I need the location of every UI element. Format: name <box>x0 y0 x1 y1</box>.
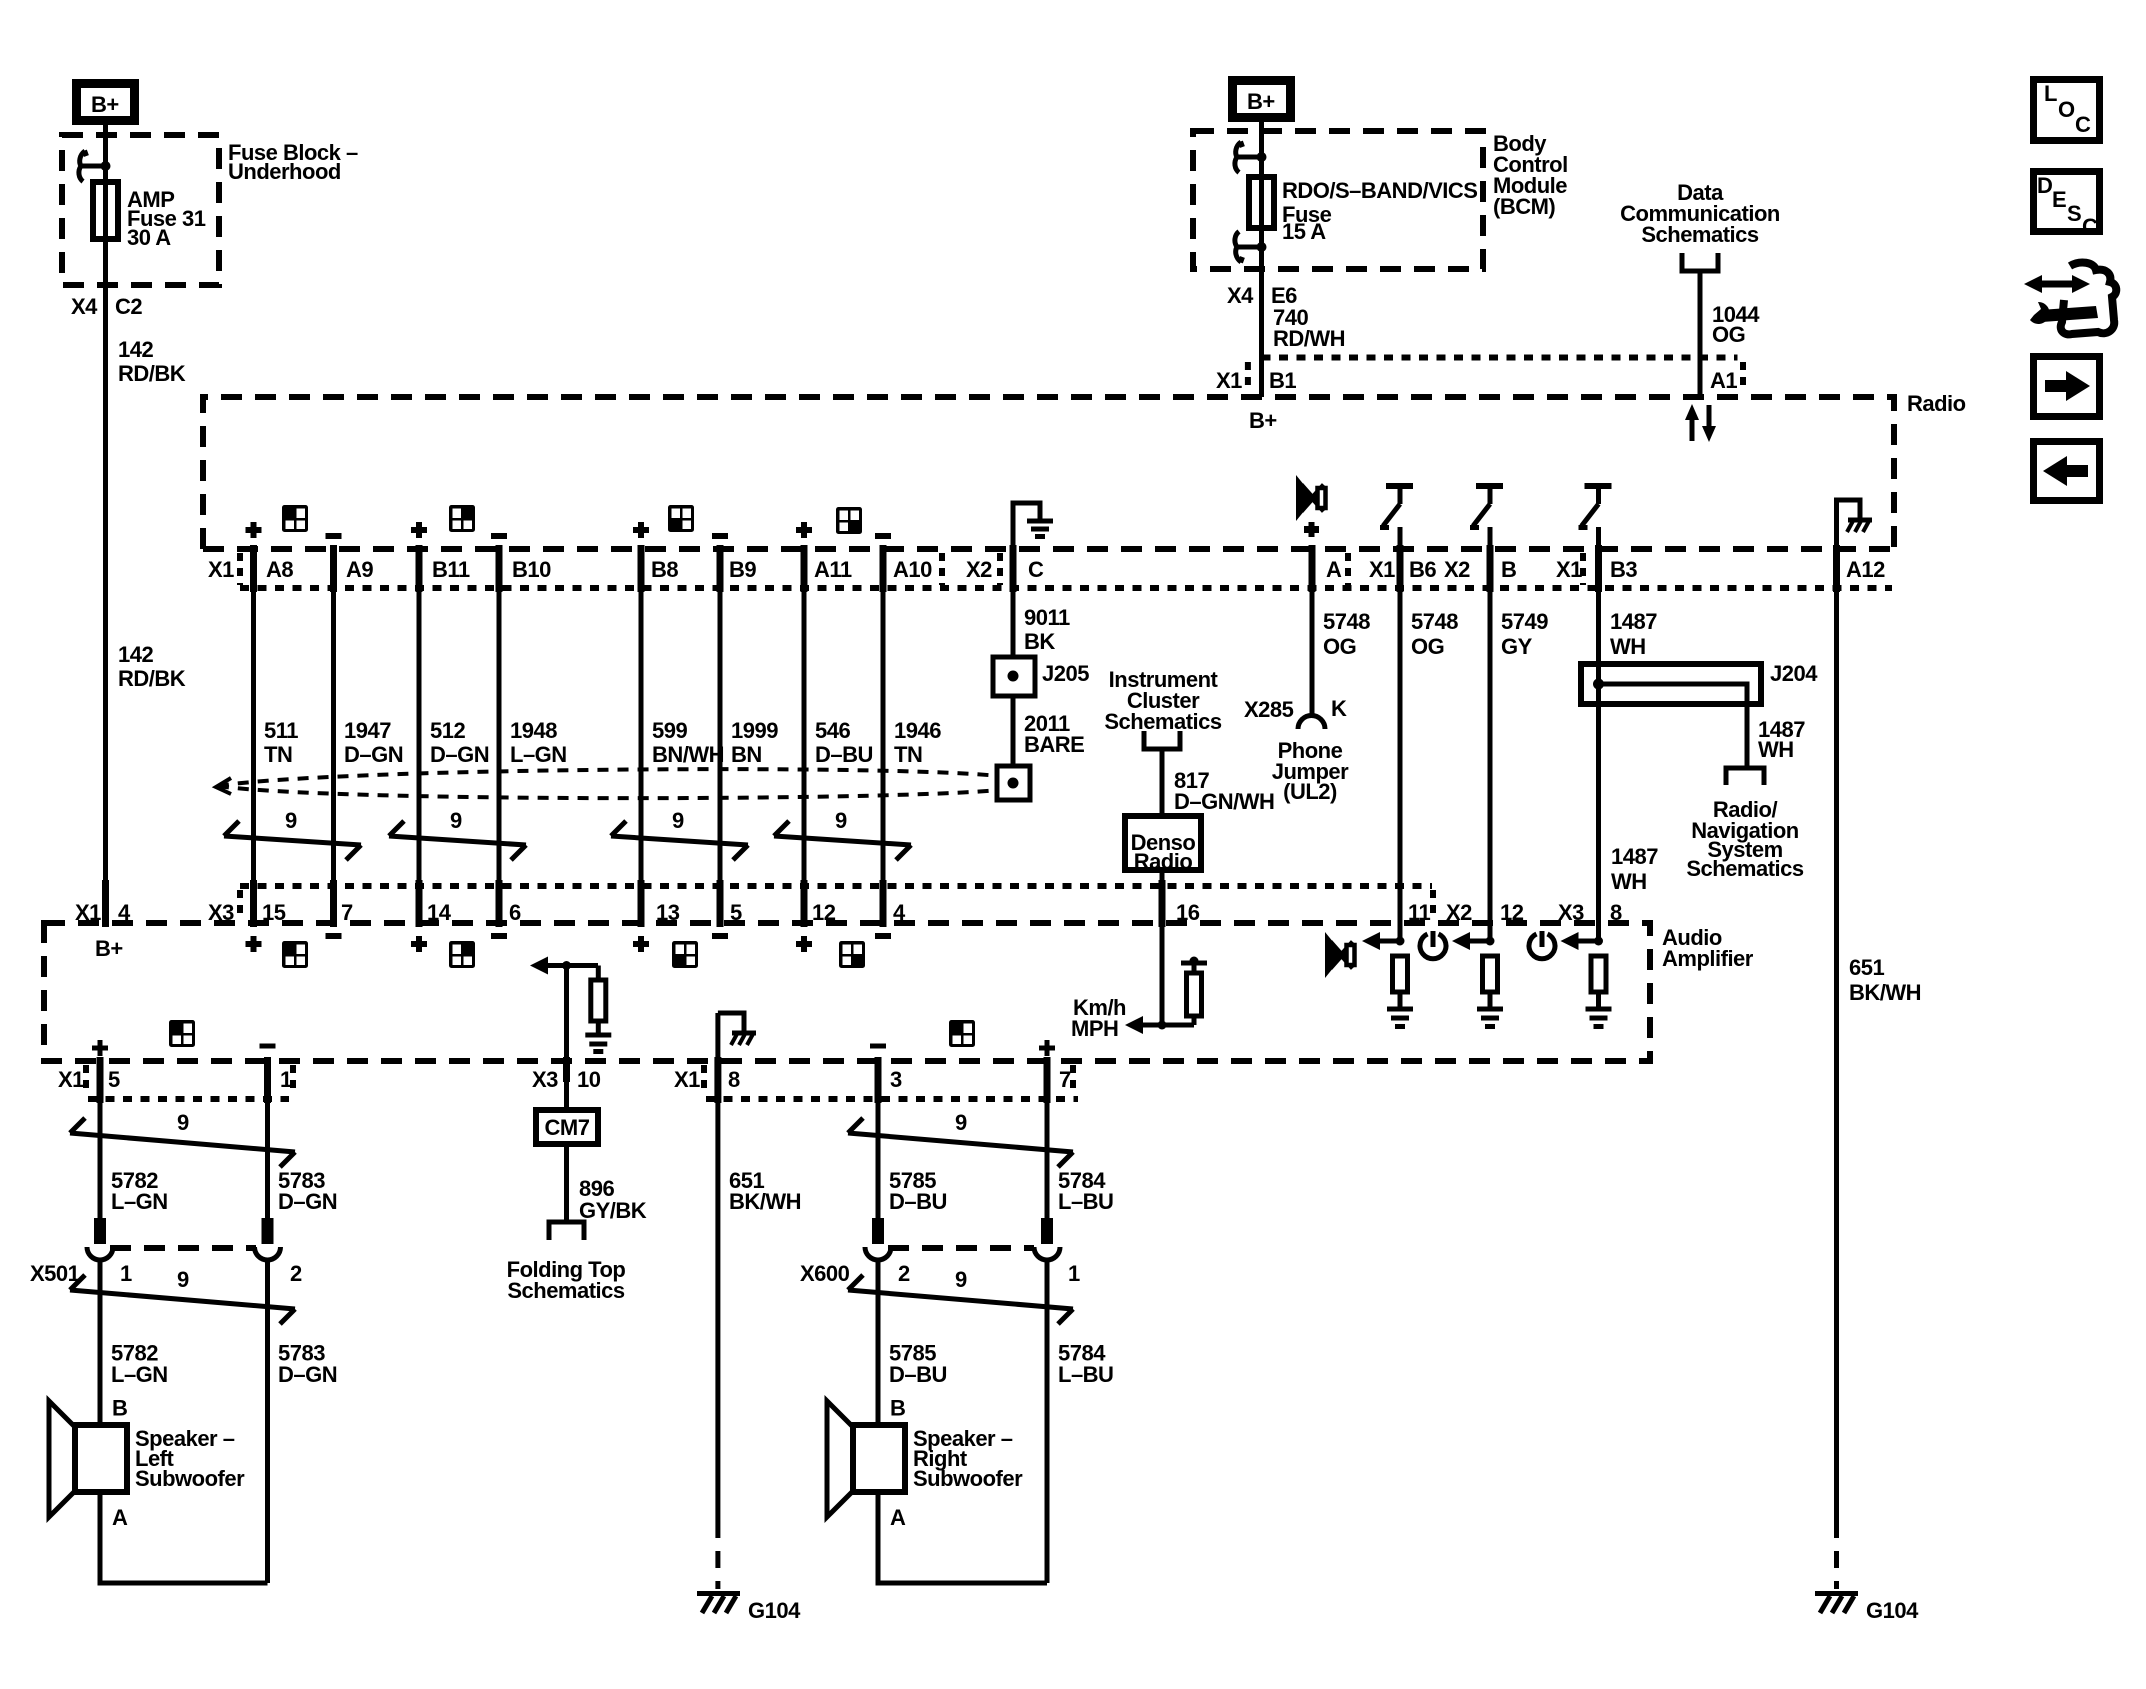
repair/wrench legend icon <box>2024 263 2116 335</box>
svg-text:B+: B+ <box>91 92 119 117</box>
Folding Top Schematics off-page reference <box>507 1222 626 1303</box>
power symbol (X3) <box>1529 931 1555 959</box>
ground G104 (left) <box>697 1594 801 1624</box>
splice J204 <box>1581 661 1818 768</box>
gauge slash 9 (right pair upper) <box>848 1110 1073 1167</box>
terminal hook above B6 <box>1380 486 1413 528</box>
svg-text:Underhood: Underhood <box>228 159 341 184</box>
wire 16 to amplifier <box>1160 870 1165 923</box>
speaker position icon LF (amp 15) <box>282 941 308 968</box>
Speaker - Right Subwoofer <box>827 1396 1023 1531</box>
svg-text:L–BU: L–BU <box>1058 1189 1113 1214</box>
bent-pin terminal above fuse <box>1235 142 1267 173</box>
svg-text:K: K <box>1331 696 1347 721</box>
bent-pin terminal below fuse <box>1235 232 1267 263</box>
svg-text:X1: X1 <box>1369 557 1395 582</box>
svg-text:D–GN: D–GN <box>430 742 489 767</box>
LOC legend box <box>2034 80 2100 141</box>
svg-text:2: 2 <box>898 1261 910 1286</box>
svg-text:B+: B+ <box>1249 408 1277 433</box>
svg-text:X1: X1 <box>208 557 234 582</box>
svg-text:599: 599 <box>652 718 687 743</box>
back arrow legend box <box>2034 442 2100 501</box>
in-line connector X600 <box>800 1218 1080 1286</box>
svg-text:5748: 5748 <box>1323 609 1370 634</box>
resistor to ground (pin 12) <box>1477 956 1503 1027</box>
svg-text:WH: WH <box>1610 634 1646 659</box>
svg-text:(UL2): (UL2) <box>1283 779 1337 804</box>
svg-text:BK/WH: BK/WH <box>1849 980 1921 1005</box>
svg-text:D–BU: D–BU <box>889 1362 947 1387</box>
Speaker - Left Subwoofer <box>49 1396 245 1531</box>
speaker wires radio to amplifier <box>254 549 884 923</box>
svg-text:Schematics: Schematics <box>507 1278 625 1303</box>
CM7 speed output junction <box>530 957 611 1052</box>
svg-text:1: 1 <box>120 1261 132 1286</box>
speaker output polarity marks (radio) <box>246 522 892 538</box>
svg-text:B1: B1 <box>1269 368 1296 393</box>
svg-text:J204: J204 <box>1770 661 1818 686</box>
svg-text:X4: X4 <box>71 294 98 319</box>
bent-pin terminal at fuse input <box>79 151 111 182</box>
svg-text:A1: A1 <box>1710 368 1737 393</box>
right subwoofer output pins <box>878 1057 1047 1103</box>
svg-text:X1: X1 <box>674 1067 700 1092</box>
svg-text:OG: OG <box>1411 634 1444 659</box>
svg-text:D–GN: D–GN <box>278 1362 337 1387</box>
separator <box>1245 362 1251 392</box>
svg-text:CM7: CM7 <box>545 1115 590 1140</box>
Instrument Cluster Schematics off-page reference <box>1104 667 1222 749</box>
wire 142 RD/BK from B+ through fuse to amplifier <box>103 125 108 923</box>
wire 651 BK/WH (A12) <box>1834 549 1839 1521</box>
svg-text:J205: J205 <box>1042 661 1089 686</box>
svg-text:9: 9 <box>177 1110 189 1135</box>
gauge slash 9 (B8/B9 pair) <box>611 808 748 860</box>
svg-text:A8: A8 <box>266 557 293 582</box>
Radio/Navigation System Schematics off-page reference <box>1686 768 1804 881</box>
svg-text:(BCM): (BCM) <box>1493 194 1555 219</box>
svg-text:C: C <box>2075 112 2091 137</box>
svg-text:A9: A9 <box>346 557 373 582</box>
gauge slash 9 (B11/B10 pair) <box>389 808 526 860</box>
wire 5748 OG (B6) to amp pin 11 <box>1398 527 1403 941</box>
svg-text:WH: WH <box>1611 869 1647 894</box>
CM7 wire through amp <box>564 966 569 1111</box>
speaker position icon RR (amp 12) <box>839 941 865 968</box>
svg-text:2: 2 <box>290 1261 302 1286</box>
svg-text:651: 651 <box>1849 955 1884 980</box>
wire 1487 WH (B3) to amp pin 8 <box>1596 527 1601 941</box>
svg-text:5749: 5749 <box>1501 609 1548 634</box>
left speaker return wire <box>100 1492 268 1583</box>
pin stubs through radio connector <box>254 545 1837 592</box>
svg-text:X1: X1 <box>1556 557 1582 582</box>
polarity marks left output <box>92 1040 276 1056</box>
fuse AMP Fuse 31 30 A <box>93 182 118 239</box>
svg-text:1487: 1487 <box>1610 609 1657 634</box>
svg-text:511: 511 <box>264 718 298 743</box>
svg-text:OG: OG <box>1323 634 1356 659</box>
muted speaker icon (radio pin A) <box>1296 475 1326 537</box>
wire 5785 D-BU lower <box>876 1260 881 1425</box>
gauge slash 9 (A11/A10 pair) <box>774 808 911 860</box>
svg-text:9: 9 <box>835 808 847 833</box>
wire 651 BK/WH to left G104 <box>715 1013 720 1521</box>
svg-text:9: 9 <box>177 1267 189 1292</box>
BCM X1 connector dotted row <box>1262 355 1738 361</box>
svg-text:L: L <box>2044 81 2057 106</box>
svg-text:GY: GY <box>1501 634 1533 659</box>
svg-text:142: 142 <box>118 337 153 362</box>
power control arrow (pin 8) <box>1561 932 1604 950</box>
svg-text:B: B <box>1501 557 1516 582</box>
svg-text:D–BU: D–BU <box>889 1189 947 1214</box>
wire 5749 GY (B) to amp pin 12 <box>1488 527 1493 941</box>
twisted-pair dashed loop <box>216 769 999 798</box>
svg-text:GY/BK: GY/BK <box>579 1198 647 1223</box>
wire 817 D-GN/WH <box>1160 749 1165 816</box>
phone jumper connector X285 <box>1244 549 1349 804</box>
svg-text:15 A: 15 A <box>1282 219 1326 244</box>
svg-text:A: A <box>112 1505 128 1530</box>
wire 5785 D-BU upper <box>876 1061 881 1227</box>
svg-text:Radio: Radio <box>1907 391 1966 416</box>
wire 896 GY/BK <box>564 1144 569 1222</box>
splice J205 <box>993 657 1089 696</box>
svg-text:RD/WH: RD/WH <box>1273 326 1345 351</box>
svg-text:B3: B3 <box>1610 557 1637 582</box>
svg-text:BN: BN <box>731 742 762 767</box>
svg-text:BK: BK <box>1024 629 1055 654</box>
svg-text:BARE: BARE <box>1024 732 1084 757</box>
amplifier connector dotted row <box>240 883 1432 889</box>
Data Communication Schematics off-page reference <box>1620 180 1780 271</box>
Audio Amplifier dashed box <box>44 923 1650 1061</box>
in-line connector X501 <box>30 1218 302 1286</box>
svg-text:X600: X600 <box>800 1261 850 1286</box>
svg-text:X2: X2 <box>1444 557 1470 582</box>
shield splice box <box>997 766 1030 800</box>
svg-text:D: D <box>2037 173 2052 198</box>
Fuse Block - Underhood dashed box <box>62 135 219 285</box>
svg-text:X501: X501 <box>30 1261 80 1286</box>
polarity marks right output <box>870 1040 1055 1056</box>
svg-text:X285: X285 <box>1244 697 1294 722</box>
svg-text:X1: X1 <box>58 1067 84 1092</box>
wire 5782 L-GN lower <box>98 1260 103 1425</box>
svg-text:BN/WH: BN/WH <box>652 742 724 767</box>
svg-text:9: 9 <box>285 808 297 833</box>
gauge slash 9 (left pair upper) <box>70 1110 295 1167</box>
svg-text:L–GN: L–GN <box>111 1362 168 1387</box>
svg-text:Schematics: Schematics <box>1686 856 1804 881</box>
svg-text:MPH: MPH <box>1071 1016 1118 1041</box>
svg-text:D–GN: D–GN <box>344 742 403 767</box>
mute control arrow (pin 11) <box>1362 932 1405 950</box>
svg-text:X4: X4 <box>1227 283 1254 308</box>
internal ground at pin 8 (651 circuit) <box>718 1013 756 1045</box>
DESC legend box <box>2034 172 2100 240</box>
svg-text:BK/WH: BK/WH <box>729 1189 801 1214</box>
svg-text:X2: X2 <box>966 557 992 582</box>
svg-text:9: 9 <box>955 1110 967 1135</box>
power control arrow (pin 12) <box>1452 932 1495 950</box>
terminal hook above B <box>1470 486 1503 528</box>
svg-text:RD/BK: RD/BK <box>118 361 186 386</box>
power symbol (X2) <box>1420 931 1446 959</box>
svg-text:S: S <box>2067 201 2081 226</box>
B+ power symbol (BCM) <box>1233 81 1291 118</box>
svg-text:L–GN: L–GN <box>510 742 567 767</box>
amp polarity marks <box>246 936 892 952</box>
svg-text:9: 9 <box>672 808 684 833</box>
svg-text:B11: B11 <box>432 557 470 582</box>
svg-text:A: A <box>890 1505 906 1530</box>
wire 2011 BARE <box>1011 696 1016 766</box>
radio connector strip dashed edge <box>203 546 1898 552</box>
CM7 module box <box>536 1110 598 1144</box>
speaker position icon RR (radio A11) <box>836 507 862 534</box>
forward arrow legend box <box>2034 357 2100 417</box>
svg-text:512: 512 <box>430 718 465 743</box>
svg-text:B+: B+ <box>95 936 123 961</box>
radio connector strip dotted edge <box>240 585 1892 591</box>
right speaker return wire <box>878 1492 1047 1583</box>
svg-text:OG: OG <box>1712 322 1745 347</box>
terminal hook above B3 <box>1579 486 1612 528</box>
svg-text:B6: B6 <box>1409 557 1436 582</box>
svg-text:B: B <box>112 1396 127 1421</box>
svg-text:B10: B10 <box>512 557 551 582</box>
svg-text:3: 3 <box>890 1067 902 1092</box>
svg-text:B: B <box>890 1396 905 1421</box>
amp connector separators <box>237 890 243 920</box>
svg-text:9: 9 <box>955 1267 967 1292</box>
svg-text:1487: 1487 <box>1611 844 1658 869</box>
svg-text:WH: WH <box>1758 737 1794 762</box>
Body Control Module dashed box <box>1193 131 1483 269</box>
svg-text:10: 10 <box>577 1067 601 1092</box>
svg-text:9: 9 <box>450 808 462 833</box>
svg-text:1999: 1999 <box>731 718 778 743</box>
gauge slash 9 (left pair lower) <box>70 1267 295 1324</box>
svg-text:7: 7 <box>1059 1067 1071 1092</box>
svg-text:RDO/S–BAND/VICS: RDO/S–BAND/VICS <box>1282 178 1477 203</box>
svg-text:1: 1 <box>1068 1261 1080 1286</box>
svg-text:142: 142 <box>118 642 153 667</box>
speaker position icon (left subwoofer) <box>169 1020 195 1047</box>
svg-text:546: 546 <box>815 718 850 743</box>
svg-text:D–BU: D–BU <box>815 742 873 767</box>
resistor to ground (pin 11) <box>1387 956 1413 1027</box>
svg-text:B+: B+ <box>1247 89 1275 114</box>
svg-text:X1: X1 <box>1216 368 1242 393</box>
svg-text:1948: 1948 <box>510 718 557 743</box>
svg-text:X3: X3 <box>532 1067 558 1092</box>
fuse RDO/S-BAND/VICS 15 A <box>1249 177 1274 228</box>
svg-text:B9: B9 <box>729 557 756 582</box>
left subwoofer output pins <box>100 1057 268 1103</box>
ground reference above A12 <box>1837 500 1873 549</box>
svg-text:Schematics: Schematics <box>1104 709 1222 734</box>
svg-text:G104: G104 <box>1866 1598 1919 1623</box>
svg-text:G104: G104 <box>748 1598 801 1623</box>
speaker position icon RF (amp 14) <box>449 941 475 968</box>
Denso Radio box <box>1125 816 1201 874</box>
svg-text:O: O <box>2058 97 2075 122</box>
svg-text:Amplifier: Amplifier <box>1662 946 1754 971</box>
svg-text:A10: A10 <box>893 557 932 582</box>
svg-text:9011: 9011 <box>1024 605 1070 630</box>
svg-text:Subwoofer: Subwoofer <box>135 1466 245 1491</box>
svg-text:30 A: 30 A <box>127 225 171 250</box>
speaker position icon LR (amp 13) <box>672 941 698 968</box>
wire 5783 D-GN upper <box>265 1061 270 1227</box>
Km/h MPH speed signal <box>1071 923 1207 1041</box>
svg-text:B8: B8 <box>651 557 678 582</box>
speaker position icon RF (radio B11) <box>449 505 475 532</box>
gauge slash 9 (right pair lower) <box>848 1267 1073 1324</box>
svg-text:D–GN: D–GN <box>278 1189 337 1214</box>
connector separators <box>237 553 243 585</box>
svg-text:C: C <box>2082 214 2098 239</box>
resistor to ground (pin 8) <box>1586 956 1612 1027</box>
svg-text:5: 5 <box>108 1067 120 1092</box>
svg-text:TN: TN <box>264 742 292 767</box>
svg-text:8: 8 <box>728 1067 740 1092</box>
speaker position icon (right subwoofer) <box>949 1020 975 1047</box>
svg-text:RD/BK: RD/BK <box>118 666 186 691</box>
svg-text:L–BU: L–BU <box>1058 1362 1113 1387</box>
svg-text:5748: 5748 <box>1411 609 1458 634</box>
svg-text:A11: A11 <box>814 557 852 582</box>
wire 5784 L-BU upper <box>1045 1061 1050 1227</box>
ground symbol inside radio (pin C) <box>1013 503 1053 549</box>
wire 5784 L-BU lower <box>1045 1260 1050 1583</box>
svg-text:C: C <box>1028 557 1044 582</box>
wire 740 RD/WH from B+ to radio <box>1259 122 1264 397</box>
svg-text:TN: TN <box>894 742 922 767</box>
svg-text:Schematics: Schematics <box>1641 222 1759 247</box>
svg-text:D–GN/WH: D–GN/WH <box>1174 789 1274 814</box>
svg-text:6: 6 <box>509 900 521 925</box>
B+ power symbol (left) <box>77 84 135 121</box>
muted speaker icon (amp) <box>1325 932 1355 978</box>
wire 1044 OG <box>1698 271 1703 397</box>
svg-text:Subwoofer: Subwoofer <box>913 1466 1023 1491</box>
wire 9011 BK from pin C <box>1011 588 1016 657</box>
bidirectional data arrows <box>1685 404 1716 442</box>
svg-text:A: A <box>1326 557 1342 582</box>
wire 651 BK/WH unconnected section <box>1834 1521 1839 1589</box>
gauge slash 9 (A8/A9 pair) <box>224 808 361 860</box>
ground G104 (right) <box>1815 1594 1919 1624</box>
wire 5783 D-GN lower <box>265 1260 270 1583</box>
svg-text:A12: A12 <box>1846 557 1885 582</box>
svg-text:E: E <box>2052 187 2066 212</box>
speaker position icon LR (radio B8) <box>668 505 694 532</box>
svg-text:1946: 1946 <box>894 718 941 743</box>
svg-text:L–GN: L–GN <box>111 1189 168 1214</box>
speaker position icon LF (radio A8) <box>282 505 308 532</box>
svg-text:1947: 1947 <box>344 718 391 743</box>
Radio dashed box <box>203 397 1894 549</box>
wire 5782 L-GN upper <box>98 1061 103 1227</box>
svg-text:C2: C2 <box>115 294 142 319</box>
